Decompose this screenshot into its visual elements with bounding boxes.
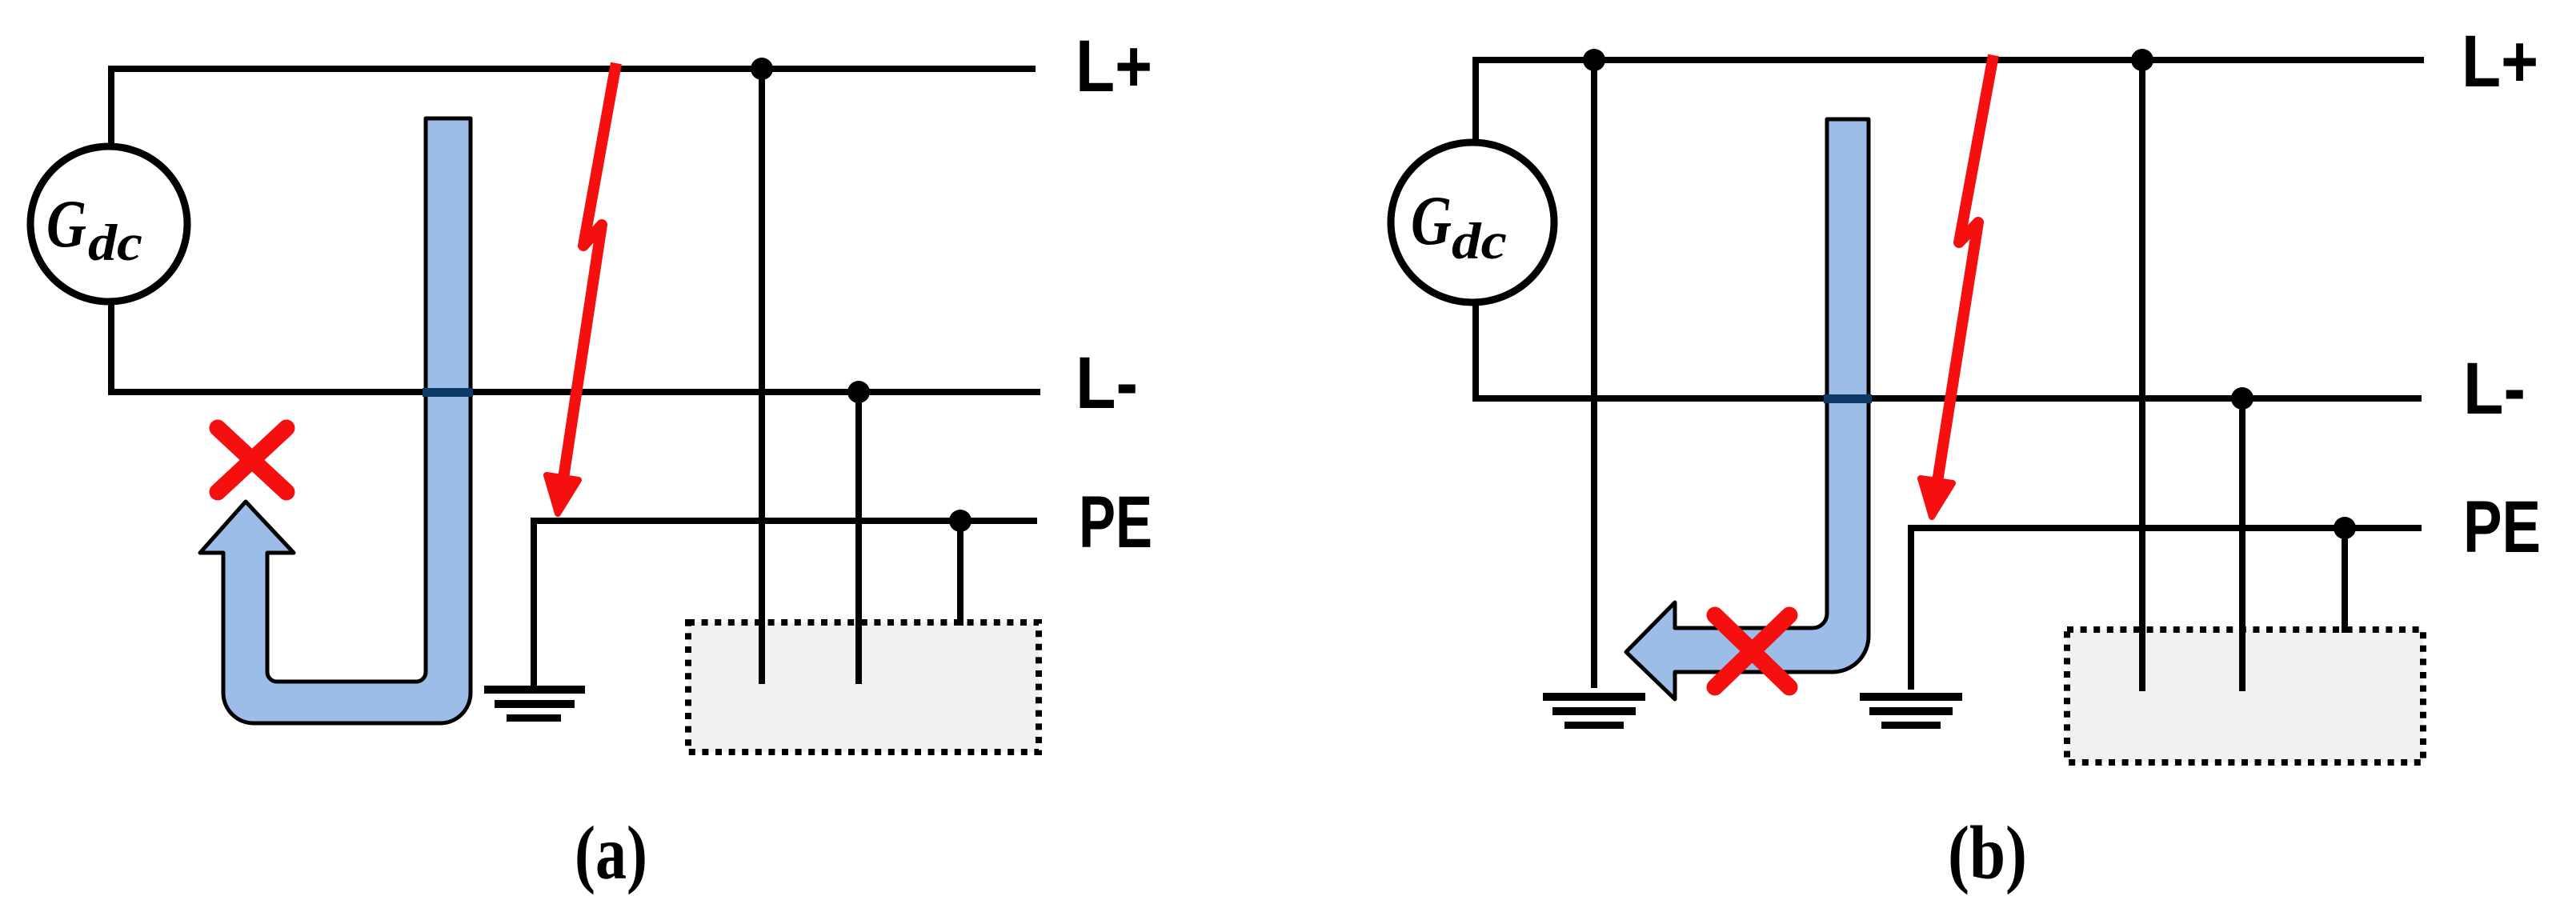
- ground symbol (a): [484, 686, 585, 722]
- wire generator bottom riser (b): [1472, 302, 1479, 398]
- generator Gdc (a): [30, 146, 187, 302]
- wire PE left drop to earth (a): [531, 518, 537, 686]
- node L+ junction (a): [751, 58, 773, 80]
- node L- junction (a): [847, 381, 870, 403]
- fault bolt red arrow (a): [547, 63, 616, 514]
- svg-text:dc: dc: [1452, 213, 1507, 270]
- X mark no-path (a): [218, 428, 286, 492]
- wire L+ bus (a): [108, 66, 1036, 72]
- ground symbol left (b): [1543, 693, 1645, 729]
- svg-text:L-: L-: [2463, 348, 2526, 430]
- svg-text:PE: PE: [1079, 482, 1152, 563]
- load box dotted (a): [688, 622, 1039, 752]
- wire PE drop to load (a): [957, 521, 963, 626]
- wire generator bottom riser (a): [108, 302, 114, 392]
- generator Gdc (b): [1391, 142, 1554, 302]
- node L- crossing under blue bar (b): [1824, 394, 1872, 403]
- wire generator top riser (b): [1472, 57, 1479, 145]
- wire generator top riser (a): [108, 66, 114, 146]
- svg-text:(a): (a): [575, 810, 647, 895]
- svg-text:L+: L+: [1076, 26, 1152, 107]
- svg-text:(b): (b): [1948, 810, 2027, 895]
- node L- crossing under blue bar (a): [423, 388, 473, 397]
- svg-text:PE: PE: [2463, 486, 2541, 568]
- wire L- drop to load (a): [855, 392, 862, 684]
- node PE junction (b): [2334, 517, 2356, 539]
- wire PE drop to load (b): [2342, 528, 2348, 633]
- X mark no-path (b): [1715, 615, 1789, 687]
- load box dotted (b): [2067, 630, 2423, 762]
- svg-text:L+: L+: [2462, 21, 2538, 102]
- wire L- bus (b): [1472, 395, 2422, 402]
- wire PE bus (a): [534, 518, 1037, 524]
- wire L- drop to load (b): [2239, 398, 2245, 691]
- svg-text:G: G: [46, 186, 86, 262]
- wire PE bus (b): [1911, 525, 2422, 531]
- blue fault current path arrow (b): [1626, 119, 1869, 699]
- node PE junction (a): [949, 510, 972, 532]
- wire L+ drop to load (a): [759, 69, 765, 684]
- wire L- bus (a): [108, 389, 1040, 395]
- ground symbol right (b): [1860, 693, 1962, 729]
- wire L+ drop to earth (b): [1591, 60, 1597, 688]
- svg-text:dc: dc: [88, 214, 142, 272]
- wire PE left drop to earth (b): [1908, 525, 1914, 690]
- node L- junction (b): [2231, 387, 2253, 410]
- node L+ load junction (b): [2131, 49, 2153, 71]
- blue insulation-fault current path arrow (a): [200, 118, 471, 723]
- svg-text:L-: L-: [1076, 342, 1138, 424]
- svg-text:G: G: [1411, 182, 1452, 260]
- fault bolt red arrow (b): [1921, 55, 1993, 517]
- wire L+ bus (b): [1472, 57, 2424, 63]
- wire L+ drop to load (b): [2139, 60, 2145, 691]
- node L+ earth junction (b): [1583, 49, 1605, 71]
